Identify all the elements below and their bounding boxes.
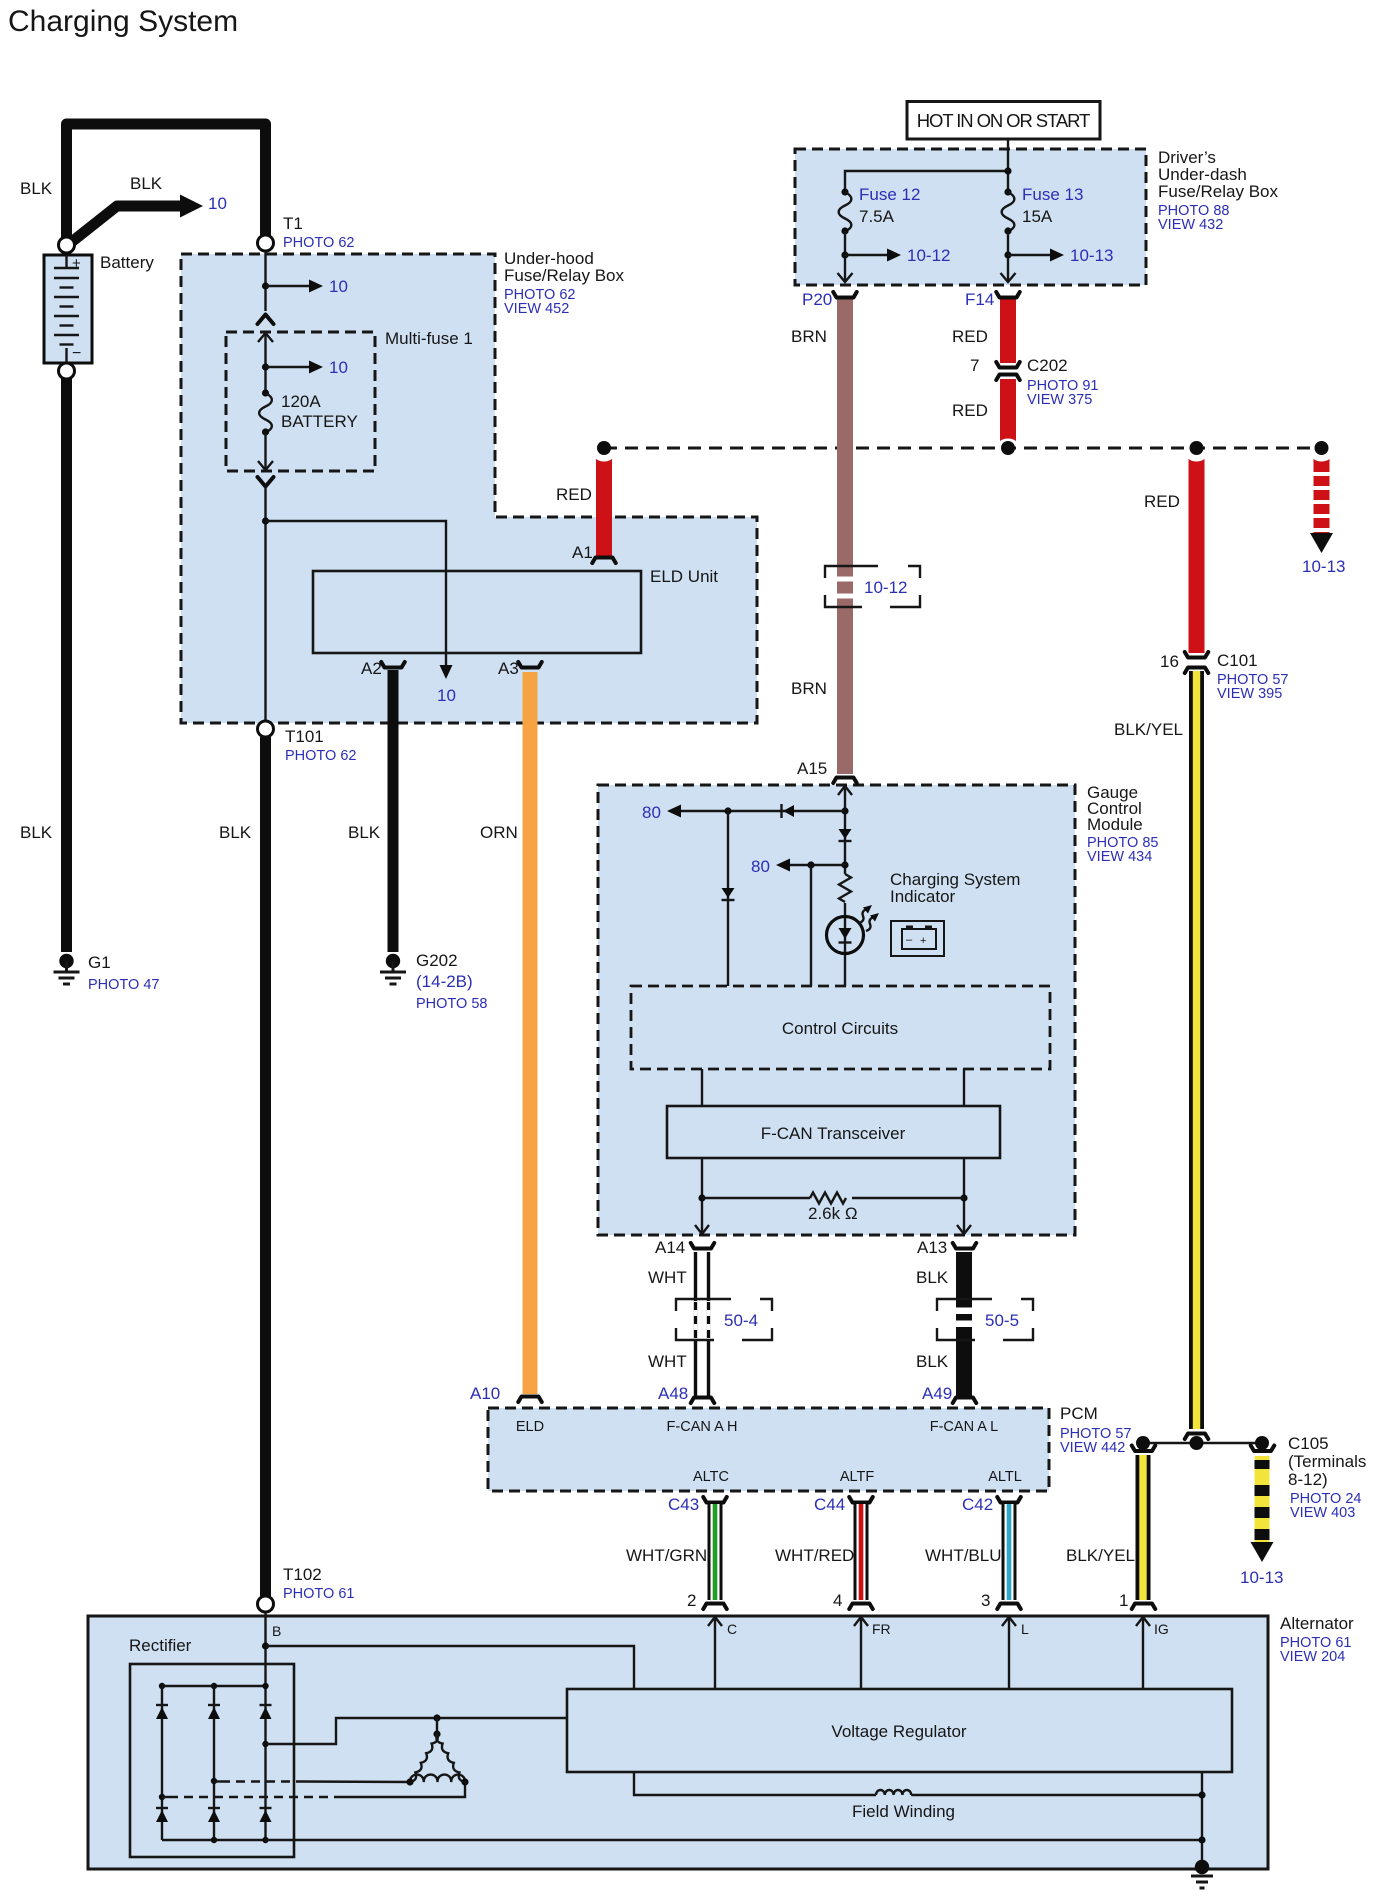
svg-text:T102: T102 (283, 1565, 322, 1584)
arrow 10-12 (845, 254, 888, 256)
svg-text:2.6k Ω: 2.6k Ω (808, 1204, 858, 1223)
junction (262, 282, 269, 289)
diode down on main wire (839, 829, 852, 839)
svg-text:G1: G1 (88, 953, 111, 972)
svg-text:A49: A49 (922, 1384, 952, 1403)
ground G1 (54, 954, 80, 984)
wire branch to fuse 12 (845, 171, 1008, 192)
top bus (162, 1685, 266, 1687)
wire F-CAN to A13 (963, 1158, 965, 1233)
svg-text:VIEW 442: VIEW 442 (1060, 1440, 1125, 1456)
connector C43 lower (703, 1604, 727, 1610)
GCM entry arrow from A15 (838, 786, 852, 795)
svg-text:ALTL: ALTL (988, 1469, 1022, 1485)
svg-text:ALTF: ALTF (840, 1469, 875, 1485)
rectifier box (130, 1664, 294, 1857)
terminal T1 (258, 235, 274, 251)
svg-text:−: − (72, 345, 81, 362)
connector C42 (997, 1497, 1021, 1503)
svg-text:C202: C202 (1027, 356, 1068, 375)
svg-text:BLK: BLK (130, 174, 163, 193)
connector C44 (849, 1497, 873, 1503)
diode left on 80 line (780, 804, 782, 818)
svg-text:Module: Module (1087, 815, 1143, 834)
wire CC to F-CAN right (963, 1069, 965, 1106)
wire RED bus to A1 (596, 455, 612, 557)
svg-text:RED: RED (1144, 492, 1180, 511)
wire to multi-fuse exit arrow (264, 432, 266, 469)
arrow entering multi-fuse 1 (258, 333, 273, 342)
svg-text:50-4: 50-4 (724, 1311, 758, 1330)
wire WHT/RED (854, 1504, 869, 1600)
svg-text:A48: A48 (658, 1384, 688, 1403)
delta stator winding (406, 1714, 468, 1785)
svg-text:10-12: 10-12 (864, 578, 907, 597)
junction (841, 861, 848, 868)
phase tap to delta bottom-right (159, 1794, 165, 1800)
connector C42 lower (997, 1604, 1021, 1610)
svg-text:L: L (1021, 1621, 1029, 1637)
svg-text:G202: G202 (416, 951, 458, 970)
arrow 10-13 (1008, 254, 1051, 256)
C105 junction line (1143, 1442, 1262, 1444)
svg-text:RED: RED (952, 401, 988, 420)
wire fuse12 down to P20 (844, 231, 846, 281)
wire BLK branch with arrow to 10 (67, 206, 183, 246)
svg-text:A15: A15 (797, 759, 827, 778)
svg-text:80: 80 (751, 857, 770, 876)
svg-text:–: – (906, 934, 913, 946)
wire BLK/YEL to IG (1136, 1455, 1151, 1600)
svg-text:Alternator: Alternator (1280, 1614, 1354, 1633)
svg-text:Fuse/Relay Box: Fuse/Relay Box (1158, 182, 1278, 201)
svg-text:C: C (727, 1621, 737, 1637)
svg-text:VIEW 204: VIEW 204 (1280, 1649, 1345, 1665)
junction (262, 517, 269, 524)
50-4 bracket (676, 1299, 772, 1340)
wire resistor to LED to control circuits (844, 903, 846, 986)
svg-text:BRN: BRN (791, 679, 827, 698)
under-hood fuse/relay box (181, 254, 757, 723)
alternator box (88, 1616, 1268, 1869)
svg-text:8-12): 8-12) (1288, 1470, 1328, 1489)
voltage regulator box (567, 1689, 1232, 1772)
svg-text:BLK: BLK (20, 179, 53, 198)
svg-text:10-13: 10-13 (1070, 246, 1113, 265)
connector BLK/YEL IG lower (1132, 1604, 1156, 1610)
svg-text:ORN: ORN (480, 823, 518, 842)
wire RED bus to C101 (1189, 455, 1205, 653)
connector chevron below multi-fuse (258, 477, 274, 487)
alternator ground (1191, 1860, 1213, 1888)
alternator entry arrow FR (854, 1617, 868, 1626)
wire multi-fuse to T101 (264, 487, 266, 730)
dashed bus line y=447 (604, 447, 1322, 450)
svg-text:PHOTO 58: PHOTO 58 (416, 996, 487, 1012)
bottom bus (162, 1839, 266, 1841)
svg-text:C43: C43 (668, 1495, 699, 1514)
terminal T102 (258, 1596, 274, 1612)
svg-text:C101: C101 (1217, 651, 1258, 670)
svg-text:F-CAN A L: F-CAN A L (930, 1419, 999, 1435)
svg-text:C105: C105 (1288, 1434, 1329, 1453)
wire CC to F-CAN left (701, 1069, 703, 1106)
svg-text:A3: A3 (498, 659, 519, 678)
resistor 2.6k between (698, 1194, 705, 1201)
svg-text:120A: 120A (281, 392, 321, 411)
F-CAN transceiver box (667, 1106, 1000, 1158)
svg-text:Fuse/Relay Box: Fuse/Relay Box (504, 266, 624, 285)
svg-text:PCM: PCM (1060, 1404, 1098, 1423)
arrowhead 10-13 lower (1251, 1542, 1274, 1562)
svg-text:Indicator: Indicator (890, 887, 956, 906)
junction (841, 807, 848, 814)
PCM box (488, 1408, 1049, 1491)
svg-text:IG: IG (1154, 1621, 1169, 1637)
connector A10 (518, 1397, 542, 1403)
svg-text:ELD Unit: ELD Unit (650, 567, 718, 586)
vertical phase lines (161, 1686, 163, 1840)
svg-text:BLK: BLK (916, 1352, 949, 1371)
wire 80 lower (790, 864, 845, 866)
wire BLK/YEL dashed to 10-13 (1255, 1456, 1270, 1542)
svg-text:+: + (920, 935, 926, 947)
50-5 bracket (937, 1299, 1033, 1340)
svg-text:WHT: WHT (648, 1268, 687, 1287)
wire RED dashed to 10-13 (1313, 452, 1331, 534)
connector C202 (996, 362, 1020, 368)
svg-text:WHT/BLU: WHT/BLU (925, 1546, 1002, 1565)
svg-text:A13: A13 (917, 1238, 947, 1257)
connector P20 (833, 292, 857, 298)
svg-text:1: 1 (1119, 1591, 1128, 1610)
upper diodes (156, 1705, 272, 1719)
svg-text:BLK: BLK (348, 823, 381, 842)
svg-text:ELD: ELD (516, 1419, 544, 1435)
wire BLK T101 to T102 (260, 737, 271, 1597)
connector BLK/YEL IG upper (1132, 1446, 1156, 1452)
svg-text:BLK: BLK (20, 823, 53, 842)
svg-text:80: 80 (642, 803, 661, 822)
arrowhead BLK 10 (180, 195, 203, 218)
10-12 breakout bracket (825, 566, 920, 607)
wire BLK A13 to A49 (956, 1252, 972, 1397)
svg-text:VIEW 375: VIEW 375 (1027, 392, 1092, 408)
gauge control module box (598, 785, 1075, 1235)
svg-text:BLK: BLK (916, 1268, 949, 1287)
battery (44, 255, 92, 363)
wire T1 down inside under-hood box (264, 251, 266, 311)
wire BLK battery+ loop to T1 (67, 124, 266, 246)
svg-text:BLK: BLK (219, 823, 252, 842)
svg-text:PHOTO 62: PHOTO 62 (283, 235, 354, 251)
junction on bus (1001, 441, 1015, 455)
svg-text:PHOTO 61: PHOTO 61 (283, 1586, 354, 1602)
connector A2 (381, 662, 405, 668)
connector A1 (592, 558, 616, 564)
alternator entry arrow C (708, 1617, 722, 1626)
svg-text:4: 4 (833, 1591, 842, 1610)
svg-text:WHT: WHT (648, 1352, 687, 1371)
wire BLK A2 to G202 (388, 670, 399, 952)
arrow to 10 (multi-fuse) (266, 366, 311, 368)
svg-text:VIEW 452: VIEW 452 (504, 301, 569, 317)
alternator entry arrow L (1002, 1617, 1016, 1626)
connector F14 (996, 292, 1020, 298)
svg-text:16: 16 (1160, 652, 1179, 671)
svg-text:C44: C44 (814, 1495, 845, 1514)
svg-text:Charging System: Charging System (8, 5, 238, 38)
connector A13 (953, 1243, 977, 1249)
svg-text:7.5A: 7.5A (859, 207, 895, 226)
diode down on that wire (722, 888, 735, 898)
HOT IN ON OR START box (907, 102, 1100, 140)
svg-text:Multi-fuse 1: Multi-fuse 1 (385, 329, 473, 348)
connector chevron above multi-fuse (258, 315, 274, 325)
svg-text:F-CAN A H: F-CAN A H (667, 1419, 738, 1435)
wire branch through ELD to arrow 10 (266, 521, 447, 666)
wire down from 80 junction (727, 811, 729, 986)
svg-text:T101: T101 (285, 727, 324, 746)
svg-text:WHT/GRN: WHT/GRN (626, 1546, 707, 1565)
wire RED C202 to bus junction (1000, 379, 1016, 443)
svg-text:A2: A2 (361, 659, 382, 678)
junction dot 10-13 bus (1315, 441, 1329, 455)
svg-text:Control Circuits: Control Circuits (782, 1019, 898, 1038)
svg-text:Battery: Battery (100, 253, 154, 272)
connector C44 lower (849, 1604, 873, 1610)
svg-text:10-13: 10-13 (1302, 557, 1345, 576)
svg-text:ALTC: ALTC (693, 1469, 729, 1485)
alternator entry arrow IG (1136, 1617, 1150, 1626)
svg-text:PHOTO 62: PHOTO 62 (285, 748, 356, 764)
svg-text:50-5: 50-5 (985, 1311, 1019, 1330)
svg-text:Rectifier: Rectifier (129, 1636, 192, 1655)
svg-text:10-12: 10-12 (907, 246, 950, 265)
connector A49 (953, 1398, 977, 1404)
svg-text:VIEW 434: VIEW 434 (1087, 849, 1152, 865)
LED light arrows (859, 909, 867, 923)
battery + terminal (59, 237, 75, 253)
junction A1 bus (597, 441, 611, 455)
wire down from 80 lower junction (810, 865, 812, 986)
phase tap to delta bottom-left (211, 1778, 217, 1784)
svg-text:(Terminals: (Terminals (1288, 1452, 1366, 1471)
svg-text:Fuse 13: Fuse 13 (1022, 185, 1083, 204)
arrowhead 80 upper (667, 805, 681, 818)
svg-text:Fuse 12: Fuse 12 (859, 185, 920, 204)
arrowhead 10-13 (1310, 533, 1333, 553)
wire WHT/BLU (1002, 1504, 1017, 1600)
wire HOT feed down (1007, 138, 1009, 192)
svg-text:10: 10 (437, 686, 456, 705)
svg-text:10-13: 10-13 (1240, 1568, 1283, 1587)
junction C101 bus (1190, 441, 1204, 455)
svg-text:T1: T1 (283, 214, 303, 233)
svg-text:A10: A10 (470, 1384, 500, 1403)
connector A3 (518, 662, 542, 668)
svg-text:10: 10 (208, 194, 227, 213)
connector A48 (691, 1398, 715, 1404)
junction B branch (262, 1642, 269, 1649)
junction (262, 363, 269, 370)
fuse 12 (841, 188, 848, 195)
svg-text:B: B (272, 1623, 281, 1639)
svg-text:+: + (72, 255, 81, 272)
svg-text:C42: C42 (962, 1495, 993, 1514)
svg-text:3: 3 (981, 1591, 990, 1610)
phase tap to delta apex (262, 1741, 268, 1747)
resistor on main wire (839, 874, 851, 902)
wire WHT/GRN (708, 1504, 723, 1600)
wire RED F14 to C202 (1000, 299, 1016, 363)
svg-text:HOT IN ON OR START: HOT IN ON OR START (917, 110, 1090, 131)
svg-text:BLK/YEL: BLK/YEL (1066, 1546, 1135, 1565)
svg-text:RED: RED (952, 327, 988, 346)
svg-text:PHOTO 47: PHOTO 47 (88, 977, 159, 993)
junction (724, 807, 731, 814)
fuse12 exit arrow (838, 273, 853, 282)
svg-text:7: 7 (970, 356, 979, 375)
svg-text:VIEW 403: VIEW 403 (1290, 1505, 1355, 1521)
svg-text:BATTERY: BATTERY (281, 412, 358, 431)
connector A14 (691, 1243, 715, 1249)
svg-text:A14: A14 (655, 1238, 685, 1257)
svg-text:VIEW 395: VIEW 395 (1217, 686, 1282, 702)
connector C43 (703, 1497, 727, 1503)
arrow to 10 (upper) (266, 285, 311, 287)
svg-text:(14-2B): (14-2B) (416, 972, 473, 991)
svg-text:BRN: BRN (791, 327, 827, 346)
wire BLK/YEL C101 to C105 (1189, 671, 1204, 1429)
VR ground stem (1201, 1772, 1203, 1867)
rectifier common to ground (266, 1839, 1203, 1841)
control circuits box (631, 986, 1050, 1069)
svg-text:10: 10 (329, 277, 348, 296)
svg-text:WHT/RED: WHT/RED (775, 1546, 854, 1565)
svg-text:Voltage Regulator: Voltage Regulator (831, 1722, 966, 1741)
svg-text:2: 2 (687, 1591, 696, 1610)
wire WHT A14 to A48 (696, 1252, 709, 1397)
wire B from T102 down (264, 1612, 266, 1840)
svg-text:10: 10 (329, 358, 348, 377)
GCM exit arrows (695, 1225, 709, 1234)
multi-fuse 1 box (226, 332, 375, 471)
fuse 120A BATTERY (262, 389, 269, 396)
connector BLK/YEL to C101 wire bottom (1185, 1434, 1209, 1440)
wire F-CAN to A14 (701, 1158, 703, 1233)
connector C101 (1185, 652, 1209, 658)
wire fuse13 down to F14 (1007, 231, 1009, 281)
wire BLK battery- to G1 (61, 370, 72, 952)
battery indicator icon (891, 921, 944, 956)
svg-text:RED: RED (556, 485, 592, 504)
terminal T101 (258, 721, 274, 737)
svg-text:F-CAN Transceiver: F-CAN Transceiver (761, 1124, 906, 1143)
svg-text:BLK/YEL: BLK/YEL (1114, 720, 1183, 739)
wire ORN A3 to A10 (523, 672, 538, 1394)
wire B to voltage regulator (266, 1646, 635, 1689)
svg-text:VIEW 432: VIEW 432 (1158, 217, 1223, 233)
ground G202 (380, 954, 406, 984)
connector A15 (833, 778, 857, 784)
svg-text:A1: A1 (572, 543, 593, 562)
lower diodes (156, 1808, 272, 1822)
svg-text:15A: 15A (1022, 207, 1053, 226)
fuse13 exit arrow (1001, 273, 1016, 282)
LED charging system indicator (827, 917, 864, 954)
svg-text:F14: F14 (965, 290, 994, 309)
battery - terminal (59, 363, 75, 379)
field winding wire (634, 1772, 876, 1795)
svg-text:Field Winding: Field Winding (852, 1802, 955, 1821)
ELD unit box (313, 571, 641, 653)
svg-text:P20: P20 (802, 290, 832, 309)
wire 80 upper (681, 810, 845, 812)
svg-text:FR: FR (872, 1621, 891, 1637)
driver's under-dash fuse/relay box (795, 149, 1146, 285)
connector C105 right piece (1251, 1446, 1275, 1452)
wire BRN P20 to A15 (837, 299, 853, 774)
fuse 13 (1004, 188, 1011, 195)
